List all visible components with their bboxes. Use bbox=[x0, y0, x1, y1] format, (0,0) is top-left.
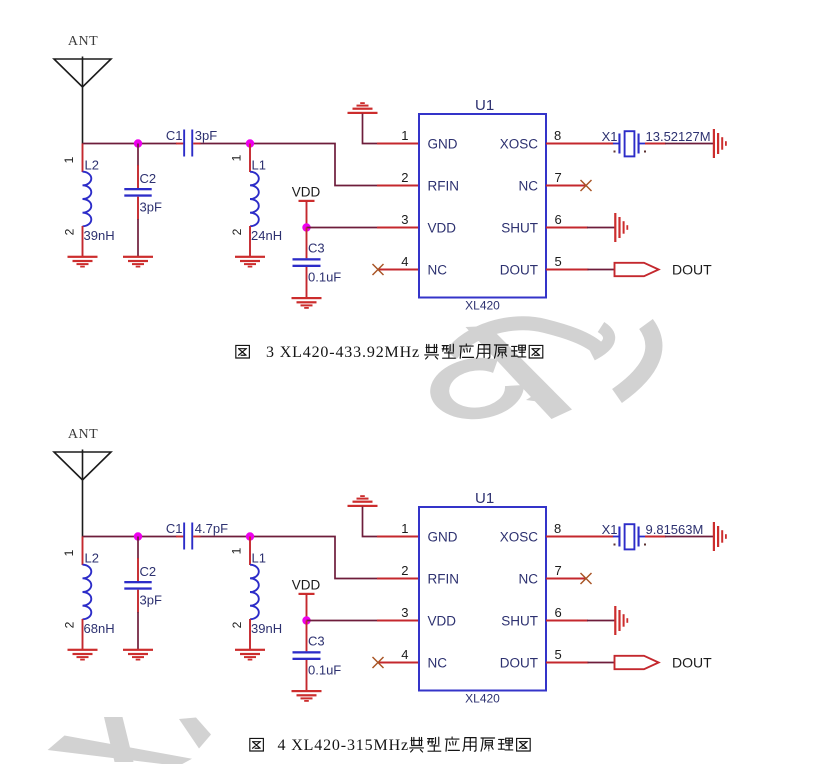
capacitor C1 (4.7pF) bbox=[166, 521, 228, 550]
svg-text:GND: GND bbox=[428, 530, 458, 545]
svg-text:2: 2 bbox=[401, 170, 408, 185]
svg-text:VDD: VDD bbox=[428, 221, 457, 236]
wire: SHUT pin 6 to ground bbox=[546, 620, 588, 622]
wire: RFIN pin 2 red stub bbox=[377, 578, 419, 580]
svg-text:SHUT: SHUT bbox=[501, 221, 538, 236]
wire: junction down to C2 bbox=[137, 537, 139, 560]
svg-text:NC: NC bbox=[519, 572, 539, 587]
svg-text:8: 8 bbox=[554, 521, 561, 536]
ground (crystal, pointing right) bbox=[713, 129, 727, 158]
svg-text:3: 3 bbox=[401, 605, 408, 620]
port DOUT (output arrow) bbox=[615, 655, 713, 671]
svg-text:3pF: 3pF bbox=[195, 128, 217, 143]
capacitor C2 (3pF) bbox=[124, 165, 162, 220]
svg-text:VDD: VDD bbox=[292, 578, 321, 593]
svg-text:1: 1 bbox=[62, 549, 76, 556]
svg-text:1: 1 bbox=[230, 154, 244, 161]
wire: C2 to ground bbox=[137, 612, 139, 650]
svg-text:C2: C2 bbox=[140, 564, 157, 579]
svg-text:6: 6 bbox=[555, 605, 562, 620]
op-amp U1 (XL420 IC body) bbox=[419, 490, 546, 706]
svg-text:C3: C3 bbox=[308, 634, 325, 649]
svg-text:1: 1 bbox=[401, 128, 408, 143]
svg-text:2: 2 bbox=[230, 228, 244, 235]
node: junction VDD/C3/pin3 bbox=[302, 616, 310, 624]
svg-text:XL420: XL420 bbox=[465, 299, 500, 313]
wire: C1 right to RFIN pin 2 bbox=[200, 537, 379, 579]
wire: antenna node to C1 left bbox=[83, 536, 178, 538]
svg-text:9.81563M: 9.81563M bbox=[646, 522, 704, 537]
svg-text:SHUT: SHUT bbox=[501, 614, 538, 629]
svg-text:39nH: 39nH bbox=[251, 621, 282, 636]
svg-text:VDD: VDD bbox=[428, 614, 457, 629]
svg-text:4 XL420-315MHz: 4 XL420-315MHz bbox=[278, 737, 409, 754]
svg-text:L1: L1 bbox=[252, 158, 266, 173]
svg-text:39nH: 39nH bbox=[84, 228, 115, 243]
crystal X1 (9.81563M) bbox=[602, 522, 704, 549]
svg-text:2: 2 bbox=[401, 563, 408, 578]
no-connect X (pin 4) bbox=[373, 264, 384, 275]
svg-text:XOSC: XOSC bbox=[500, 137, 539, 152]
svg-text:DOUT: DOUT bbox=[500, 263, 538, 278]
svg-text:4: 4 bbox=[401, 254, 408, 269]
svg-text:L2: L2 bbox=[85, 551, 99, 566]
svg-text:68nH: 68nH bbox=[84, 621, 115, 636]
ground (L1) bbox=[235, 649, 265, 661]
ground (C2) bbox=[123, 256, 153, 268]
svg-text:4.7pF: 4.7pF bbox=[195, 521, 228, 536]
svg-text:ANT: ANT bbox=[68, 427, 98, 442]
wire: XOSC pin 8 to crystal bbox=[546, 536, 614, 538]
ground (crystal, pointing right) bbox=[713, 522, 727, 551]
wire: junction down to C2 bbox=[137, 144, 139, 167]
inductor L2 (68nH) bbox=[62, 537, 115, 650]
svg-text:6: 6 bbox=[555, 212, 562, 227]
ground (SHUT, pointing right) bbox=[614, 213, 628, 242]
svg-text:C2: C2 bbox=[140, 171, 157, 186]
wire: crystal to ground bbox=[645, 143, 666, 145]
wire: DOUT pin 5 to port bbox=[546, 662, 589, 664]
wire: GND pin 1 red stub bbox=[377, 143, 419, 145]
svg-text:1: 1 bbox=[230, 547, 244, 554]
svg-text:L2: L2 bbox=[85, 158, 99, 173]
svg-text:DOUT: DOUT bbox=[672, 655, 712, 671]
svg-text:5: 5 bbox=[555, 647, 562, 662]
wire: GND pin 1 red stub bbox=[377, 536, 419, 538]
pin numbers U1 left (1-4) bbox=[401, 128, 408, 269]
wire: VDD junction to VDD pin 3 bbox=[307, 227, 379, 229]
svg-text:8: 8 bbox=[554, 128, 561, 143]
wire: VDD pin 3 red stub bbox=[377, 620, 419, 622]
svg-text:XL420: XL420 bbox=[465, 692, 500, 706]
no-connect X (pin 4) bbox=[373, 657, 384, 668]
wire: VDD junction to VDD pin 3 bbox=[307, 620, 379, 622]
svg-text:0.1uF: 0.1uF bbox=[308, 663, 341, 678]
wire: NC pin 4 bbox=[378, 269, 419, 271]
svg-text:5: 5 bbox=[555, 254, 562, 269]
svg-text:24nH: 24nH bbox=[251, 228, 282, 243]
wire: NC pin 7 bbox=[546, 185, 586, 187]
svg-text:7: 7 bbox=[555, 170, 562, 185]
svg-text:DOUT: DOUT bbox=[672, 262, 712, 278]
svg-text:DOUT: DOUT bbox=[500, 656, 538, 671]
svg-text:ANT: ANT bbox=[68, 34, 98, 49]
wire: C2 to ground bbox=[137, 219, 139, 257]
svg-text:3: 3 bbox=[401, 212, 408, 227]
svg-text:X1: X1 bbox=[602, 129, 618, 144]
wire: VDD pin 3 red stub bbox=[377, 227, 419, 229]
wire: crystal to ground bbox=[645, 536, 666, 538]
caption figure 3 bbox=[236, 344, 543, 361]
svg-text:U1: U1 bbox=[475, 97, 494, 114]
inductor L2 (39nH) bbox=[62, 144, 115, 257]
svg-text:NC: NC bbox=[428, 656, 448, 671]
svg-text:NC: NC bbox=[428, 263, 448, 278]
antenna ANT (circuit 2) bbox=[54, 427, 111, 537]
node: junction C2/antenna net bbox=[134, 532, 142, 540]
svg-text:RFIN: RFIN bbox=[428, 179, 460, 194]
ground (GND pin 1, pointing up) bbox=[348, 495, 378, 507]
no-connect X (pin 7) bbox=[581, 180, 592, 191]
ground (L1) bbox=[235, 256, 265, 268]
pin numbers U1 left (1-4) bbox=[401, 521, 408, 662]
ground (SHUT, pointing right) bbox=[614, 606, 628, 635]
ground (GND pin 1, pointing up) bbox=[348, 102, 378, 114]
node: junction L1/C1 net bbox=[246, 532, 254, 540]
wire: C1 right to RFIN pin 2 bbox=[200, 144, 379, 186]
caption figure 4 bbox=[250, 737, 530, 754]
svg-text:2: 2 bbox=[63, 228, 77, 235]
svg-text:C1: C1 bbox=[166, 521, 183, 536]
svg-text:4: 4 bbox=[401, 647, 408, 662]
svg-text:U1: U1 bbox=[475, 490, 494, 507]
svg-text:0.1uF: 0.1uF bbox=[308, 270, 341, 285]
capacitor C2 (3pF) bbox=[124, 558, 162, 613]
inductor L1 (39nH) bbox=[230, 537, 283, 650]
crystal X1 (13.52127M) bbox=[602, 129, 711, 156]
wire: antenna node to C1 left bbox=[83, 143, 178, 145]
svg-text:C3: C3 bbox=[308, 241, 325, 256]
capacitor C3 (0.1uF) bbox=[293, 228, 342, 298]
svg-text:1: 1 bbox=[401, 521, 408, 536]
svg-text:XOSC: XOSC bbox=[500, 530, 539, 545]
wire: RFIN pin 2 red stub bbox=[377, 185, 419, 187]
ground (C3) bbox=[292, 690, 322, 702]
wire: ground to GND pin 1 bbox=[363, 507, 379, 537]
svg-text:13.52127M: 13.52127M bbox=[646, 129, 711, 144]
capacitor C3 (0.1uF) bbox=[293, 621, 342, 691]
svg-text:L1: L1 bbox=[252, 551, 266, 566]
svg-text:3 XL420-433.92MHz: 3 XL420-433.92MHz bbox=[266, 344, 420, 361]
svg-text:X1: X1 bbox=[602, 522, 618, 537]
ground (C3) bbox=[292, 297, 322, 309]
svg-text:C1: C1 bbox=[166, 128, 183, 143]
no-connect X (pin 7) bbox=[581, 573, 592, 584]
wire: DOUT pin 5 to port bbox=[546, 269, 589, 271]
ground (L2) bbox=[68, 649, 98, 661]
antenna ANT (circuit 1) bbox=[54, 34, 111, 144]
op-amp U1 (XL420 IC body) bbox=[419, 97, 546, 313]
svg-text:VDD: VDD bbox=[292, 185, 321, 200]
capacitor C1 (3pF) bbox=[166, 128, 217, 157]
ground (L2) bbox=[68, 256, 98, 268]
wire: SHUT pin 6 to ground bbox=[546, 227, 588, 229]
inductor L1 (24nH) bbox=[230, 144, 283, 257]
pin numbers U1 right (8,7,6,5) bbox=[554, 128, 562, 269]
wire: XOSC pin 8 to crystal bbox=[546, 143, 614, 145]
svg-text:GND: GND bbox=[428, 137, 458, 152]
node: junction VDD/C3/pin3 bbox=[302, 223, 310, 231]
wire: NC pin 7 bbox=[546, 578, 586, 580]
wire: ground to GND pin 1 bbox=[363, 114, 379, 144]
pin numbers U1 right (8,7,6,5) bbox=[554, 521, 562, 662]
port DOUT (output arrow) bbox=[615, 262, 713, 278]
node: junction C2/antenna net bbox=[134, 139, 142, 147]
svg-text:3pF: 3pF bbox=[140, 593, 162, 608]
svg-text:2: 2 bbox=[230, 621, 244, 628]
node: junction L1/C1 net bbox=[246, 139, 254, 147]
svg-text:3pF: 3pF bbox=[140, 200, 162, 215]
power VDD bbox=[292, 578, 321, 621]
wire: NC pin 4 bbox=[378, 662, 419, 664]
svg-text:2: 2 bbox=[63, 621, 77, 628]
power VDD bbox=[292, 185, 321, 228]
ground (C2) bbox=[123, 649, 153, 661]
svg-text:7: 7 bbox=[555, 563, 562, 578]
svg-text:NC: NC bbox=[519, 179, 539, 194]
svg-text:1: 1 bbox=[62, 156, 76, 163]
svg-text:RFIN: RFIN bbox=[428, 572, 460, 587]
